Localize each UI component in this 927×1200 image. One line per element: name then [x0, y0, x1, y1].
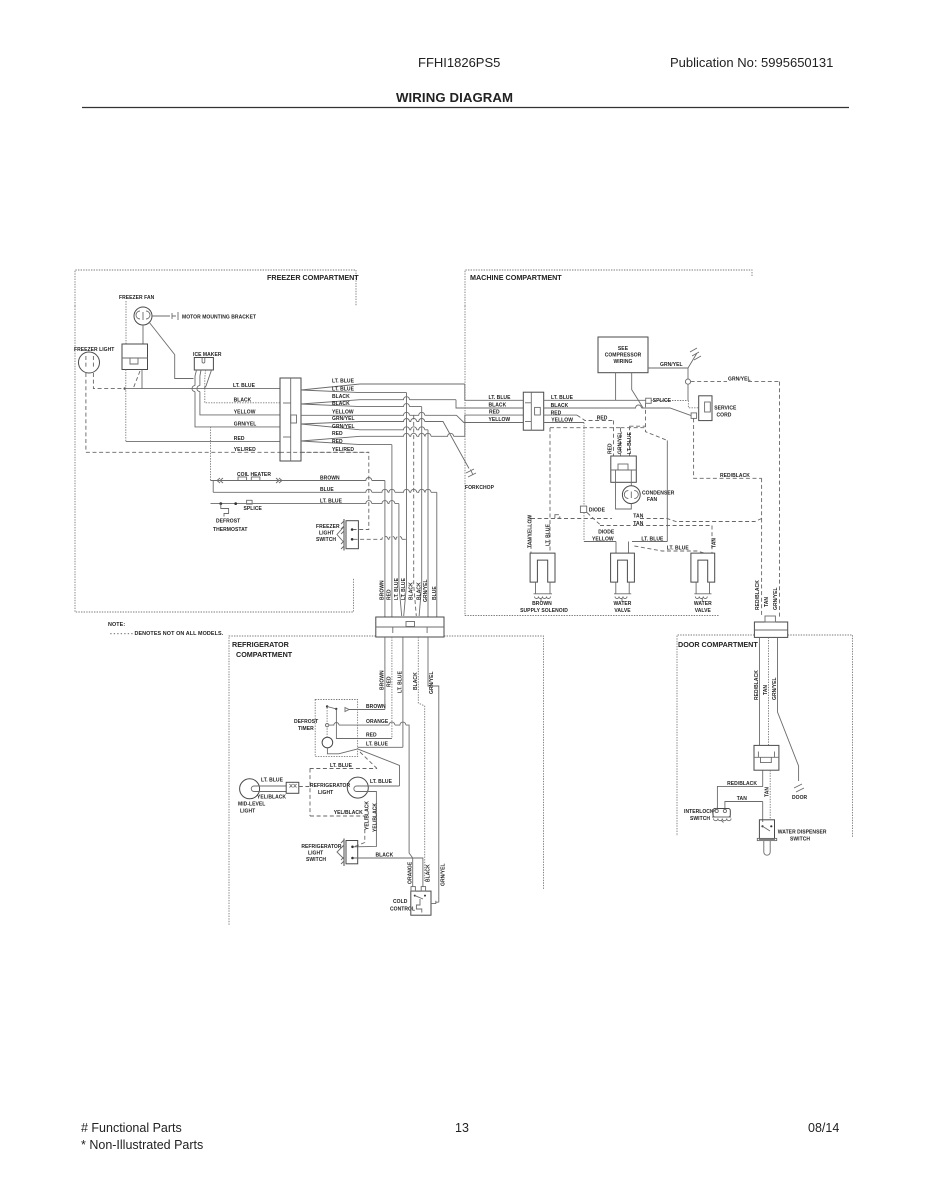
- svg-text:COLD: COLD: [393, 899, 408, 905]
- brown supply solenoid: [530, 553, 555, 601]
- svg-text:TAN: TAN: [633, 514, 643, 520]
- svg-text:BLACK: BLACK: [413, 672, 419, 690]
- wire: heater return (blue): [212, 481, 214, 493]
- svg-text:LT. BLUE: LT. BLUE: [641, 536, 664, 542]
- svg-text:LIGHT: LIGHT: [318, 790, 333, 796]
- wire: yel/red dashed to switch: [280, 452, 369, 529]
- svg-text:GRN/YEL: GRN/YEL: [660, 362, 683, 368]
- svg-text:LT. BLUE: LT. BLUE: [398, 670, 404, 693]
- svg-text:TAN: TAN: [764, 597, 770, 607]
- wire: tan drop to dispenser: [769, 770, 771, 820]
- svg-text:ORANGE: ORANGE: [366, 719, 389, 725]
- svg-text:08/14: 08/14: [808, 1121, 839, 1135]
- svg-text:LT. BLUE: LT. BLUE: [401, 577, 407, 600]
- door connector CN4: [754, 616, 787, 637]
- svg-text:RED: RED: [551, 411, 562, 417]
- svg-text:BROWN: BROWN: [320, 475, 340, 481]
- diode 2 square: [555, 515, 560, 519]
- svg-text:BLACK: BLACK: [332, 394, 350, 400]
- wire: yellow service line: [544, 422, 584, 424]
- wire: lt.blue into machine connector: [465, 384, 524, 400]
- svg-text:LIGHT: LIGHT: [308, 851, 323, 857]
- wire: red/black to interlock: [717, 770, 762, 808]
- machine connector CN2: [523, 392, 543, 430]
- condenser fan motor: [622, 482, 640, 503]
- svg-text:BLACK: BLACK: [234, 397, 252, 403]
- svg-text:SERVICE: SERVICE: [714, 406, 737, 412]
- svg-text:COMPARTMENT: COMPARTMENT: [236, 650, 293, 659]
- svg-text:FFHI1826PS5: FFHI1826PS5: [418, 55, 500, 70]
- svg-text:FREEZER FAN: FREEZER FAN: [119, 295, 155, 301]
- splice square: [646, 398, 652, 403]
- wire: red service line: [544, 414, 577, 416]
- rotated labels left valve: [528, 515, 718, 548]
- svg-text:BLUE: BLUE: [320, 487, 334, 493]
- svg-text:RED: RED: [387, 676, 393, 687]
- yel/red dashed bus: [86, 451, 280, 453]
- svg-text:GRN/YEL: GRN/YEL: [772, 677, 778, 700]
- svg-text:REFRIGERATOR: REFRIGERATOR: [232, 640, 290, 649]
- refrigerator harness connector CN3: [376, 617, 444, 637]
- grn/yel dashed to door: [691, 382, 780, 617]
- vertical harness: black dashed: [414, 415, 417, 616]
- svg-text:LT. BLUE: LT. BLUE: [667, 546, 690, 552]
- svg-text:WATER: WATER: [614, 601, 632, 607]
- svg-text:RED/BLACK: RED/BLACK: [755, 580, 761, 610]
- svg-text:BROWN: BROWN: [380, 670, 386, 690]
- wire: red into timer: [358, 738, 392, 740]
- svg-text:TAN: TAN: [737, 796, 747, 802]
- svg-text:YEL/BLACK: YEL/BLACK: [373, 803, 379, 832]
- wire: lt.blue drop: [402, 637, 404, 747]
- lt.blue trunk right: [666, 440, 668, 541]
- svg-text:YEL/BLACK: YEL/BLACK: [334, 810, 363, 816]
- svg-text:SWITCH: SWITCH: [316, 537, 336, 543]
- wire: lt.blue service line: [544, 399, 646, 401]
- svg-text:TAN: TAN: [763, 685, 769, 695]
- vertical harness: lt.blue 1: [399, 504, 402, 616]
- svg-text:GRN/YEL: GRN/YEL: [234, 421, 257, 427]
- svg-text:CONTROL: CONTROL: [390, 907, 415, 913]
- door compartment border: [677, 635, 853, 837]
- wire: tan from interlock to dispenser: [725, 802, 763, 823]
- header rule: [82, 107, 849, 109]
- svg-text:BLACK: BLACK: [332, 401, 350, 407]
- dashed to refrigerator light: [299, 769, 365, 847]
- svg-text:YEL/BLACK: YEL/BLACK: [257, 795, 286, 801]
- svg-text:YELLOW: YELLOW: [489, 417, 511, 423]
- svg-text:ORANGE: ORANGE: [408, 861, 414, 884]
- motor mounting bracket pointer: [152, 312, 178, 320]
- wire: black drop: [418, 637, 424, 881]
- svg-text:YELLOW: YELLOW: [592, 536, 614, 542]
- ground break symbol: [688, 348, 701, 368]
- rotated wire labels above overload: [608, 431, 633, 454]
- refrigerator compartment border: [229, 636, 544, 926]
- wire: black from switch: [354, 858, 423, 887]
- svg-text:GRN/YEL: GRN/YEL: [429, 671, 435, 694]
- wire: bulb to switch (yel/black): [354, 792, 376, 847]
- svg-text:BLACK: BLACK: [489, 403, 507, 409]
- svg-text:RED: RED: [387, 589, 393, 600]
- rotated yel/black labels: [364, 801, 378, 832]
- svg-text:REFRIGERATOR: REFRIGERATOR: [310, 783, 350, 789]
- compressor overload/relay block: [611, 456, 637, 482]
- svg-text:SPLICE: SPLICE: [653, 398, 672, 404]
- wire: fan block lead to lt.blue bus: [141, 370, 143, 389]
- wire: brown into timer: [358, 709, 385, 711]
- svg-text:DEFROST: DEFROST: [216, 519, 240, 525]
- svg-text:SWITCH: SWITCH: [306, 857, 326, 863]
- svg-text:LT. BLUE: LT. BLUE: [627, 431, 633, 454]
- wire: fan label stub to fan block: [125, 301, 127, 344]
- red/black dashed to door: [694, 418, 762, 518]
- fanout: lt.blue pair: [301, 384, 465, 390]
- svg-text:CORD: CORD: [717, 413, 732, 419]
- vertical harness: black solid: [419, 407, 422, 616]
- rotated labels above door connector: [755, 580, 779, 610]
- wire: fan motor to fan block: [142, 325, 144, 344]
- svg-text:13: 13: [455, 1121, 469, 1135]
- svg-text:LT. BLUE: LT. BLUE: [370, 779, 393, 785]
- wire: freezer light lead to yel/red (dashed): [85, 373, 87, 452]
- svg-text:VALVE: VALVE: [695, 608, 712, 614]
- svg-text:Publication No: 5995650131: Publication No: 5995650131: [670, 55, 833, 70]
- svg-text:YELLOW: YELLOW: [332, 409, 354, 415]
- wire: orange from timer: [358, 722, 413, 887]
- ground ring: [685, 379, 690, 384]
- refrigerator light bulb: [347, 777, 368, 798]
- svg-text:COMPRESSOR: COMPRESSOR: [605, 353, 642, 359]
- svg-text:VALVE: VALVE: [614, 608, 631, 614]
- wire: lt.blue into timer: [358, 746, 403, 748]
- svg-text:WIRING DIAGRAM: WIRING DIAGRAM: [396, 90, 513, 105]
- svg-text:FORKCHOP: FORKCHOP: [465, 485, 495, 491]
- svg-text:BLACK: BLACK: [409, 582, 415, 600]
- dashed drop to left valve: [530, 519, 532, 554]
- wire: tan drop: [768, 637, 770, 745]
- wire: lt.blue dashed from switch: [354, 536, 406, 539]
- freezer light switch: [337, 519, 358, 551]
- wire: lt.blue to water valve: [629, 542, 668, 554]
- rotated labels above refrigerator connector: [380, 577, 438, 602]
- wire: fan motor diagonal to ice maker: [149, 322, 194, 379]
- vertical harness: blue: [436, 492, 438, 617]
- yel/red dashed from connector: [301, 451, 369, 453]
- svg-text:FREEZER COMPARTMENT: FREEZER COMPARTMENT: [267, 273, 359, 282]
- svg-text:SWITCH: SWITCH: [790, 837, 810, 843]
- fanout: red pair: [301, 433, 465, 441]
- svg-text:GRN/YEL: GRN/YEL: [332, 424, 355, 430]
- svg-text:YEL/RED: YEL/RED: [234, 447, 256, 453]
- svg-text:DIODE: DIODE: [589, 508, 606, 514]
- svg-text:LT. BLUE: LT. BLUE: [394, 577, 400, 600]
- fanout: yellow: [301, 412, 457, 415]
- svg-text:RED/BLACK: RED/BLACK: [754, 670, 760, 700]
- fanout: grn/yel pair: [301, 419, 469, 469]
- diode in yellow line: [580, 506, 586, 512]
- svg-text:RED: RED: [366, 732, 377, 738]
- wire: black service line: [544, 405, 691, 416]
- svg-text:- - - - - - - DENOTES NOT ON: - - - - - - - DENOTES NOT ON ALL MODELS.: [110, 631, 224, 637]
- wire: red horizontal to connector: [126, 440, 280, 442]
- svg-text:DOOR: DOOR: [792, 795, 808, 801]
- svg-text:REFRIGERATOR: REFRIGERATOR: [301, 844, 341, 850]
- wire: grn/yel to door ground: [778, 637, 799, 781]
- svg-text:LT. BLUE: LT. BLUE: [261, 778, 284, 784]
- freezer light bulb: [79, 352, 100, 373]
- svg-text:FAN: FAN: [647, 497, 657, 503]
- refrigerator light switch: [337, 839, 358, 867]
- junction dot: [124, 387, 126, 389]
- wire: black into machine connector: [456, 400, 523, 408]
- wire: lt.blue heater line: [211, 501, 399, 504]
- svg-text:LIGHT: LIGHT: [319, 531, 334, 537]
- rotated labels at cold control: [408, 861, 447, 886]
- svg-text:MACHINE COMPARTMENT: MACHINE COMPARTMENT: [470, 273, 562, 282]
- wire: compressor grn/yel: [648, 367, 688, 369]
- wire: red/black drop: [759, 637, 761, 745]
- svg-text:LIGHT: LIGHT: [240, 809, 255, 815]
- coil heater element (brown line): [211, 477, 385, 483]
- svg-text:LT. BLUE: LT. BLUE: [330, 763, 353, 769]
- svg-text:BROWN: BROWN: [366, 704, 386, 710]
- svg-text:TAN: TAN: [633, 521, 643, 527]
- svg-text:BLACK: BLACK: [417, 582, 423, 600]
- water valve (middle): [611, 553, 635, 601]
- compressor lead 2: [632, 373, 643, 408]
- svg-text:RED: RED: [608, 443, 614, 454]
- svg-text:LT. BLUE: LT. BLUE: [546, 523, 552, 546]
- dashed lt.blue distribution: [550, 403, 667, 551]
- interlock switch: [711, 808, 732, 823]
- svg-text:DOOR COMPARTMENT: DOOR COMPARTMENT: [678, 640, 758, 649]
- splice on lt.blue: [247, 500, 253, 504]
- wire: ice maker pin1 to grn/yel: [195, 370, 280, 427]
- svg-text:RED: RED: [332, 439, 343, 445]
- dashed curve diode to tan: [587, 513, 600, 525]
- wire: fan block lead down to red: [125, 370, 127, 442]
- svg-text:RED/BLACK: RED/BLACK: [720, 473, 750, 479]
- wire: yellow to water valve: [583, 513, 585, 542]
- svg-text:RED: RED: [489, 410, 500, 416]
- svg-text:BLUE: BLUE: [432, 586, 438, 600]
- wire: brown drop: [384, 637, 386, 710]
- svg-text:THERMOSTAT: THERMOSTAT: [213, 527, 247, 533]
- svg-text:LT. BLUE: LT. BLUE: [332, 387, 355, 393]
- vertical harness: grn/yel: [427, 430, 429, 617]
- svg-text:WATER: WATER: [694, 601, 712, 607]
- svg-text:FREEZER: FREEZER: [316, 524, 340, 530]
- wire: ice maker pin3 to black: [205, 370, 280, 403]
- vertical harness: brown: [384, 481, 386, 618]
- switch arm (dashed) under block: [133, 371, 140, 389]
- svg-text:GRN/YEL: GRN/YEL: [441, 863, 447, 886]
- svg-text:GRN/YEL: GRN/YEL: [332, 416, 355, 422]
- svg-text:WATER DISPENSER: WATER DISPENSER: [778, 830, 827, 836]
- wire: fan loop: [616, 482, 632, 509]
- wire: red drop: [391, 637, 393, 739]
- svg-text:# Functional Parts: # Functional Parts: [81, 1121, 182, 1135]
- svg-text:GRN/YEL: GRN/YEL: [728, 377, 751, 383]
- svg-text:MOTOR MOUNTING BRACKET: MOTOR MOUNTING BRACKET: [182, 315, 256, 321]
- svg-text:SUPPLY SOLENOID: SUPPLY SOLENOID: [520, 608, 568, 614]
- freezer compartment border: [75, 270, 356, 612]
- svg-text:RED/BLACK: RED/BLACK: [727, 781, 757, 787]
- vertical harness: lt.blue 2: [404, 393, 407, 616]
- fanout: black pair: [301, 397, 456, 404]
- svg-text:SEE: SEE: [618, 346, 629, 352]
- door ground break: [794, 784, 804, 792]
- svg-text:SWITCH: SWITCH: [690, 816, 710, 822]
- svg-text:TIMER: TIMER: [298, 726, 314, 732]
- tan dashed pair: [531, 519, 762, 618]
- inline connector: [286, 782, 299, 793]
- svg-text:LT. BLUE: LT. BLUE: [366, 741, 389, 747]
- wire: freezer light lead to lt.blue bus (dashed): [93, 373, 124, 389]
- defrost thermostat: [219, 502, 237, 516]
- wire: yellow into machine connector: [457, 415, 524, 422]
- freezer fan connector block: [122, 344, 148, 370]
- dashed lt.blue to right valve: [634, 546, 704, 553]
- wire: lt.blue diagonal to refrigerator light: [358, 749, 400, 786]
- svg-text:BLACK: BLACK: [426, 864, 432, 882]
- svg-text:BROWN: BROWN: [380, 580, 386, 600]
- rotated labels below connector: [380, 670, 436, 694]
- wire: grn/yel drop: [428, 637, 439, 902]
- ice maker: [194, 358, 213, 371]
- wire: grn/yel drop to coil heater: [210, 427, 212, 481]
- svg-text:DIODE: DIODE: [598, 530, 615, 536]
- svg-text:MID-LEVEL: MID-LEVEL: [238, 802, 265, 808]
- svg-text:FREEZER LIGHT: FREEZER LIGHT: [74, 347, 114, 353]
- svg-text:TAN/YELLOW: TAN/YELLOW: [528, 515, 534, 548]
- svg-text:LT. BLUE: LT. BLUE: [320, 498, 343, 504]
- see compressor wiring box: [598, 337, 648, 373]
- compressor lead 1: [615, 373, 617, 401]
- wire: red into machine connector: [465, 415, 524, 436]
- svg-text:GRN/YEL: GRN/YEL: [618, 431, 624, 454]
- svg-text:BLACK: BLACK: [376, 852, 394, 858]
- freezer fan motor M1: [134, 307, 152, 325]
- water valve (right): [691, 553, 715, 601]
- freezer/machine bulkhead connector CN1: [280, 378, 301, 461]
- svg-text:RED: RED: [332, 431, 343, 437]
- svg-text:TAN: TAN: [764, 787, 770, 797]
- door inline connector: [754, 745, 779, 770]
- svg-text:GRN/YEL: GRN/YEL: [773, 587, 779, 610]
- wire: ice maker pin2 to yellow: [200, 370, 280, 415]
- vertical harness: red: [391, 445, 393, 617]
- svg-text:RED: RED: [234, 436, 245, 442]
- svg-text:YELLOW: YELLOW: [234, 409, 256, 415]
- svg-text:TAN: TAN: [712, 538, 718, 548]
- cold control: [411, 887, 431, 916]
- svg-text:NOTE:: NOTE:: [108, 622, 125, 628]
- svg-text:* Non-Illustrated Parts: * Non-Illustrated Parts: [81, 1138, 203, 1152]
- svg-text:SPLICE: SPLICE: [244, 506, 263, 512]
- forkchop break symbol: [466, 469, 476, 477]
- svg-text:LT. BLUE: LT. BLUE: [332, 378, 355, 384]
- svg-text:WIRING: WIRING: [614, 359, 633, 365]
- svg-text:RED: RED: [597, 415, 608, 421]
- svg-text:LT. BLUE: LT. BLUE: [233, 383, 256, 389]
- service terminal square: [691, 413, 697, 419]
- svg-text:BROWN: BROWN: [532, 601, 552, 607]
- svg-text:LT. BLUE: LT. BLUE: [489, 395, 512, 401]
- rotated labels in door: [754, 670, 778, 700]
- lt.blue bus: [125, 388, 280, 390]
- svg-text:DEFROST: DEFROST: [294, 719, 318, 725]
- wire: grn/yel into cold control: [431, 901, 439, 904]
- svg-text:YEL/BLACK: YEL/BLACK: [364, 801, 370, 830]
- svg-text:GRN/YEL: GRN/YEL: [423, 579, 429, 602]
- machine compartment border: [465, 270, 752, 616]
- wire: ice maker pin4 to lt.blue bus: [204, 370, 212, 389]
- wire: bulb to lt.blue vertical: [368, 785, 400, 787]
- service cord: [699, 396, 737, 421]
- defrost timer: [315, 700, 357, 757]
- water dispenser switch: [757, 820, 776, 855]
- dashed lt.blue branch: [310, 752, 377, 769]
- mid-level light bulb: [240, 779, 260, 799]
- svg-text:INTERLOCK: INTERLOCK: [684, 809, 714, 815]
- svg-text:CONDENSER: CONDENSER: [642, 491, 675, 497]
